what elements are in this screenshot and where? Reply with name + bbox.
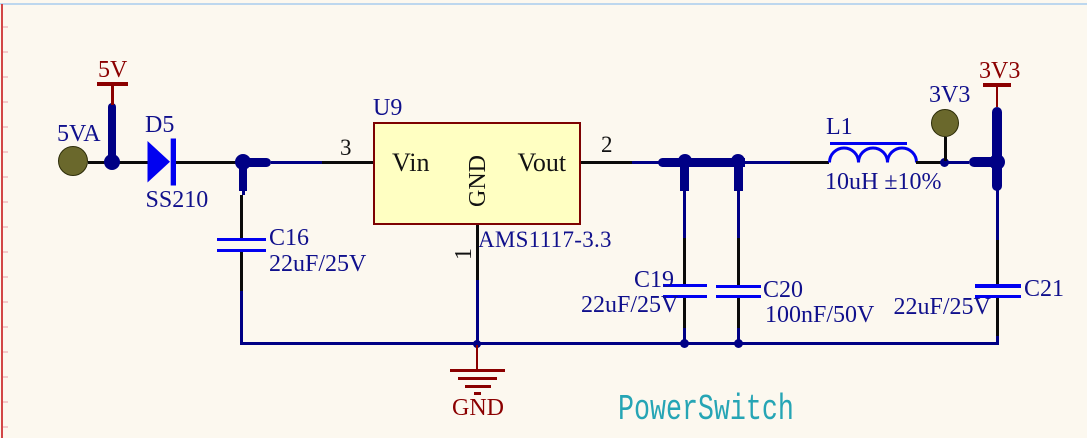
value SS210 <box>146 188 209 212</box>
wire thick stub to 3V3 bar <box>969 157 997 167</box>
power symbol 3V3 bar <box>983 83 1011 87</box>
value AMS1117-3.3 <box>478 228 612 251</box>
designator U9 <box>373 96 402 120</box>
capacitor C20 bottom plate <box>716 295 761 298</box>
wire junction to thick stub <box>945 161 969 164</box>
wire stub tip C16 <box>242 191 245 195</box>
value 22uF/25V of C21 <box>894 295 991 319</box>
power symbol 5V bar <box>97 82 129 86</box>
ground symbol bar 3 <box>465 385 491 388</box>
designator C21 <box>1024 277 1064 301</box>
junction C20 on rail <box>734 339 743 348</box>
junction C19 on rail <box>680 339 689 348</box>
wire thick stub down to C16 <box>239 162 247 191</box>
power net 5V label <box>98 58 127 82</box>
wire thick bar C19 C20 <box>658 158 745 167</box>
pin 3 lead of U9 <box>322 161 373 164</box>
capacitor C16 bottom plate <box>217 249 266 252</box>
pin number 3 <box>340 136 352 159</box>
junction at 5V tap <box>104 154 120 170</box>
capacitor C16 bottom lead <box>240 252 243 292</box>
power symbol 3V3 stem <box>996 86 999 107</box>
sheet top edge line <box>0 3 1087 5</box>
net label 5VA <box>57 122 101 146</box>
wire thick stub down to C20 <box>734 162 743 191</box>
wire stub tip C19 <box>683 191 686 195</box>
designator C19 <box>634 268 674 292</box>
power symbol 5V stem <box>111 85 114 105</box>
capacitor C20 top lead <box>737 238 740 285</box>
junction at C20 tap <box>731 154 745 168</box>
pin name GND rotated <box>466 155 490 207</box>
inductor L1 top line <box>830 142 907 145</box>
designator C16 <box>269 226 309 250</box>
wire pin2 to thick bar <box>632 161 659 164</box>
junction at C19 tap <box>678 154 692 168</box>
capacitor C20 bottom lead <box>737 298 740 329</box>
net label 3V3 <box>929 83 970 107</box>
ruler ticks (decorative) <box>3 26 8 28</box>
pin number 2 <box>601 133 613 156</box>
diode D5 body <box>146 137 178 187</box>
ground symbol bar 4 <box>474 392 481 395</box>
pin name Vin <box>392 150 429 176</box>
capacitor C19 top lead <box>683 238 686 284</box>
capacitor C16 top lead <box>240 195 243 238</box>
port 3V3 circle <box>931 109 959 137</box>
capacitor C21 bottom plate <box>975 295 1021 299</box>
port 5VA circle <box>58 146 88 176</box>
pin name Vout <box>518 150 567 176</box>
wire C19 to ground rail <box>683 328 686 343</box>
value 100nF/50V <box>765 303 874 327</box>
junction at 3V3 column <box>989 154 1005 170</box>
pin lead left of L1 <box>790 161 829 164</box>
pin lead right of L1 <box>916 161 945 164</box>
capacitor C20 top plate <box>716 285 761 288</box>
ground symbol bar 1 <box>450 369 505 372</box>
wire thick vertical to 5V symbol <box>108 103 116 162</box>
pin 1 lead of U9 <box>476 225 479 280</box>
wire C20 to ground rail <box>737 328 740 343</box>
capacitor C21 top lead <box>996 240 999 284</box>
capacitor C19 top plate <box>663 284 707 287</box>
designator L1 <box>826 115 853 139</box>
capacitor C19 bottom lead <box>683 298 686 328</box>
wire 3V3 column to C21 <box>996 190 999 240</box>
designator C20 <box>763 278 803 302</box>
wire 5VA to diode <box>88 161 148 164</box>
wire thick bar to L1 <box>745 161 791 164</box>
lead 3V3 circle down <box>944 137 947 161</box>
wire pin1 to ground rail <box>476 280 479 343</box>
power net 3V3 label <box>979 59 1020 83</box>
ground net GND label <box>452 396 504 420</box>
junction at 3V3 port tap <box>940 158 949 167</box>
pin 2 lead of U9 <box>581 161 632 164</box>
ground symbol bar 2 <box>458 377 497 380</box>
wire stub tip C20 <box>737 191 740 195</box>
wire junction to pin 3 <box>271 161 322 164</box>
op-amp U9 body <box>373 122 581 225</box>
wire C16 to ground rail <box>240 291 243 343</box>
value 22uF/25V <box>269 252 366 276</box>
wire thick stub right of junction <box>243 158 271 167</box>
capacitor C21 top plate <box>975 284 1021 288</box>
sheet left edge line <box>1 4 3 438</box>
designator D5 <box>145 113 174 137</box>
wire C21 to ground rail <box>996 336 999 345</box>
ground rail wire <box>240 342 999 345</box>
title PowerSwitch <box>618 392 794 428</box>
wire C20 upper <box>737 195 740 238</box>
capacitor C19 bottom plate <box>663 295 707 298</box>
wire C19 upper <box>683 195 686 238</box>
capacitor C16 top plate <box>217 238 266 241</box>
junction at C16 tap <box>235 154 251 170</box>
ground symbol stem <box>476 345 479 369</box>
pin number 1 rotated <box>452 248 476 260</box>
inductor L1 arcs <box>827 145 919 165</box>
junction pin1 on rail <box>473 340 481 348</box>
wire thick vertical 3V3 column <box>992 107 1002 191</box>
wire thick stub down to C19 <box>680 162 689 191</box>
value 10uH ±10% <box>825 170 942 194</box>
value 22uF/25V of C19 <box>581 293 678 317</box>
capacitor C21 bottom lead <box>996 298 999 336</box>
wire diode to junction <box>176 161 243 164</box>
